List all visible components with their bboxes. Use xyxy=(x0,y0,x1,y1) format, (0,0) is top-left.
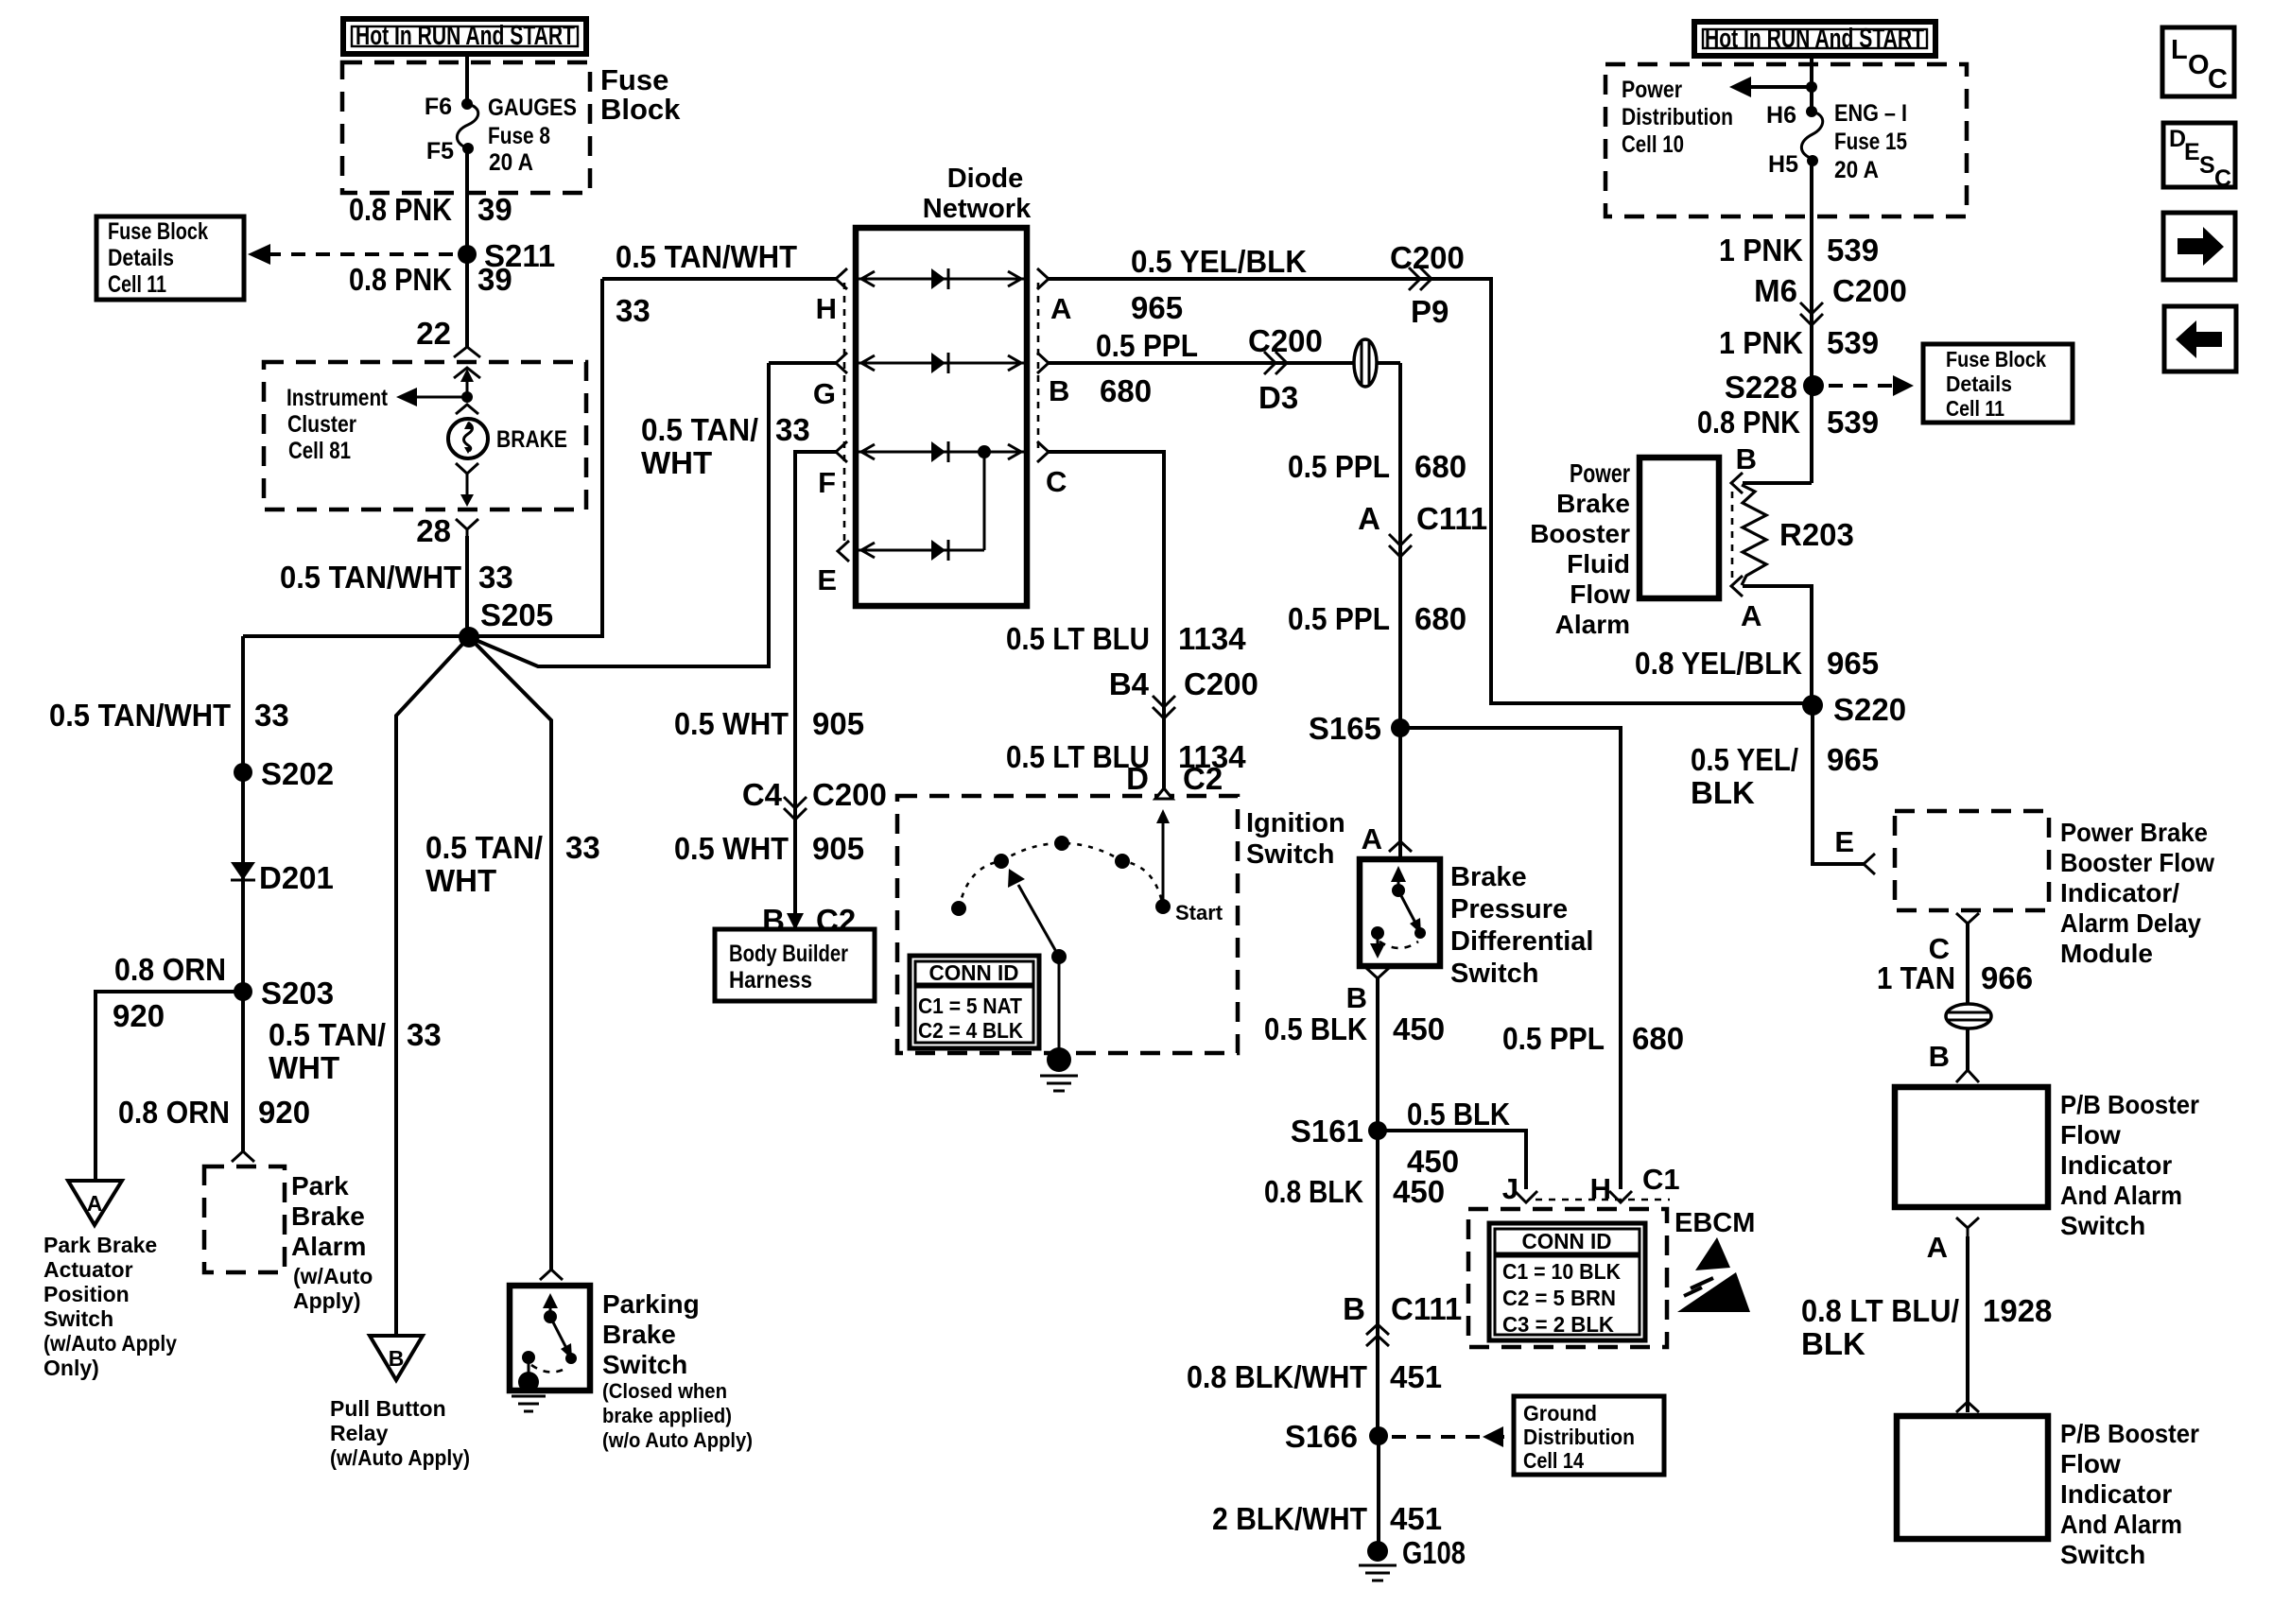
ignition switch dashed box xyxy=(897,796,1238,1053)
svg-text:Fuse 8: Fuse 8 xyxy=(488,123,550,149)
inline connector C200 P9 xyxy=(1390,240,1465,329)
svg-text:0.5 WHT: 0.5 WHT xyxy=(674,831,789,866)
svg-text:20 A: 20 A xyxy=(1834,157,1879,183)
pin chevron parking brake switch xyxy=(540,1270,563,1280)
pin C module xyxy=(1929,913,1979,965)
pin chevron G xyxy=(836,353,847,373)
wire S205 to diode H riser xyxy=(469,279,602,636)
svg-text:Fuse: Fuse xyxy=(600,63,668,96)
svg-text:B: B xyxy=(1736,442,1757,475)
svg-text:H6: H6 xyxy=(1766,102,1796,129)
svg-text:Cell 11: Cell 11 xyxy=(1946,396,2004,421)
svg-text:(w/Auto Apply: (w/Auto Apply xyxy=(43,1331,177,1356)
svg-text:GAUGES: GAUGES xyxy=(488,95,577,121)
svg-text:0.8 BLK: 0.8 BLK xyxy=(1264,1174,1363,1209)
svg-text:Indicator/: Indicator/ xyxy=(2060,878,2179,907)
off-page triangle A xyxy=(68,1181,122,1225)
svg-text:Instrument: Instrument xyxy=(286,385,389,411)
grommet on TAN wire xyxy=(1946,1004,1991,1028)
svg-text:920: 920 xyxy=(258,1095,310,1130)
svg-text:Fuse 15: Fuse 15 xyxy=(1834,129,1907,155)
label Power Brake Booster Flow Indicator/Alarm Delay Module xyxy=(2060,818,2214,968)
svg-text:966: 966 xyxy=(1981,960,2033,995)
wire H5 down to S228 and B pin xyxy=(1810,161,1813,483)
splice S203 xyxy=(234,982,252,1001)
svg-text:Flow: Flow xyxy=(2060,1449,2121,1478)
svg-text:L: L xyxy=(2171,35,2188,65)
svg-text:(Closed when: (Closed when xyxy=(602,1379,727,1403)
grommet on PPL wire xyxy=(1354,339,1377,387)
junction dot row F xyxy=(978,445,991,458)
label P/B Booster Flow Indicator And Alarm Switch (1) xyxy=(2060,1090,2199,1240)
wire S205 to parking brake switch xyxy=(469,637,551,1270)
svg-text:0.5 BLK: 0.5 BLK xyxy=(1407,1097,1510,1132)
wire F row horizontal xyxy=(795,452,836,929)
svg-text:C2 = 4 BLK: C2 = 4 BLK xyxy=(918,1018,1023,1043)
Y connector below cluster box xyxy=(456,519,478,536)
instrument cluster dashed box xyxy=(264,362,586,510)
p/b booster flow indicator and alarm switch box 1 xyxy=(1895,1087,2048,1207)
svg-text:P9: P9 xyxy=(1411,294,1449,329)
svg-text:C: C xyxy=(1046,465,1067,498)
parking brake switch box xyxy=(510,1286,590,1391)
label Pull Button Relay xyxy=(330,1396,470,1470)
svg-text:Park: Park xyxy=(291,1171,349,1201)
splice S228 xyxy=(1803,375,1824,396)
svg-text:D: D xyxy=(1126,761,1149,796)
inline connector C200 D3 xyxy=(1248,323,1323,415)
svg-text:D201: D201 xyxy=(259,860,334,895)
svg-text:450: 450 xyxy=(1393,1174,1445,1209)
svg-text:0.5 TAN/WHT: 0.5 TAN/WHT xyxy=(616,239,797,274)
svg-text:Switch: Switch xyxy=(43,1306,113,1331)
svg-text:Flow: Flow xyxy=(1570,579,1630,609)
connector chevron pin 22 xyxy=(454,347,480,357)
svg-text:2 BLK/WHT: 2 BLK/WHT xyxy=(1212,1501,1367,1536)
svg-text:G108: G108 xyxy=(1402,1535,1466,1570)
svg-text:905: 905 xyxy=(812,831,864,866)
svg-text:Cell 14: Cell 14 xyxy=(1523,1448,1584,1473)
splice S220 xyxy=(1802,695,1823,716)
svg-text:33: 33 xyxy=(775,412,810,447)
wire box1 to box2 xyxy=(1966,1236,1969,1412)
svg-text:EBCM: EBCM xyxy=(1674,1208,1755,1238)
svg-text:33: 33 xyxy=(407,1017,442,1052)
brake pressure differential switch box xyxy=(1360,859,1440,966)
pin chevron C xyxy=(1037,441,1049,462)
svg-text:C2: C2 xyxy=(816,903,856,938)
svg-text:539: 539 xyxy=(1827,405,1879,440)
svg-text:Pressure: Pressure xyxy=(1450,894,1568,924)
ignition start contact wire with up arrow xyxy=(1156,809,1170,907)
EBCM connector dashed line xyxy=(1536,1199,1670,1201)
body builder harness box xyxy=(715,929,875,1001)
svg-text:Flow: Flow xyxy=(2060,1120,2121,1149)
svg-text:965: 965 xyxy=(1131,290,1183,325)
svg-text:0.5 PPL: 0.5 PPL xyxy=(1288,601,1390,636)
resistor R203 xyxy=(1742,485,1854,585)
label Power Distribution Cell 10 xyxy=(1622,77,1733,158)
wire S203 to park brake actuator xyxy=(95,992,243,1181)
wire S161 to EBCM J xyxy=(1378,1131,1526,1189)
diode D201 xyxy=(231,860,334,895)
svg-text:E: E xyxy=(2184,139,2200,165)
svg-text:0.5 TAN/: 0.5 TAN/ xyxy=(269,1017,386,1052)
internal wire with up arrow xyxy=(460,369,474,403)
svg-text:539: 539 xyxy=(1827,233,1879,268)
svg-text:0.5 PPL: 0.5 PPL xyxy=(1288,449,1390,484)
CONN ID table (EBCM) xyxy=(1489,1223,1645,1340)
svg-text:Fuse Block: Fuse Block xyxy=(108,218,208,245)
svg-text:Diode: Diode xyxy=(947,164,1024,194)
connector C4 C200 xyxy=(742,777,887,820)
diode network box xyxy=(856,228,1027,606)
svg-text:F6: F6 xyxy=(425,94,452,120)
connector B4 C200 xyxy=(1109,666,1258,718)
label Park Brake Actuator Position Switch xyxy=(43,1233,177,1380)
switch contacts inside xyxy=(522,1293,577,1373)
connector D C2 xyxy=(1126,761,1223,799)
svg-text:R203: R203 xyxy=(1779,517,1854,552)
label P/B Booster Flow Indicator And Alarm Switch (2) xyxy=(2060,1419,2199,1569)
splice S161 xyxy=(1368,1121,1387,1140)
pin chevron box2 xyxy=(1956,1402,1979,1412)
connector dashed line right xyxy=(1037,283,1040,449)
icon LOC xyxy=(2162,27,2234,96)
svg-text:brake applied): brake applied) xyxy=(602,1404,732,1427)
wire S166 to G108 xyxy=(1377,1436,1380,1543)
svg-text:Distribution: Distribution xyxy=(1622,104,1733,130)
svg-text:680: 680 xyxy=(1100,373,1152,408)
ESD warning symbol xyxy=(1677,1237,1750,1312)
svg-text:WHT: WHT xyxy=(269,1050,339,1085)
wire grommet to B pin xyxy=(1966,1028,1969,1070)
wire S220 to E pin module xyxy=(1813,705,1864,864)
svg-text:(w/Auto Apply): (w/Auto Apply) xyxy=(330,1445,470,1470)
svg-text:Fluid: Fluid xyxy=(1567,549,1630,579)
wire A row YEL/BLK xyxy=(1049,279,1813,703)
svg-text:CONN ID: CONN ID xyxy=(929,960,1019,985)
ground G (ignition) xyxy=(1040,1047,1078,1091)
svg-text:0.5 LT BLU: 0.5 LT BLU xyxy=(1006,621,1150,656)
svg-text:1 TAN: 1 TAN xyxy=(1877,960,1955,995)
splice S202 xyxy=(234,763,252,782)
splice S211 xyxy=(458,245,477,264)
wire S165 to EBCM H xyxy=(1400,728,1621,1189)
wire C to grommet xyxy=(1966,924,1969,1005)
connector B C111 xyxy=(1343,1291,1462,1346)
svg-text:C111: C111 xyxy=(1391,1291,1462,1326)
svg-text:O: O xyxy=(2188,50,2210,80)
svg-text:0.5 TAN/: 0.5 TAN/ xyxy=(641,412,758,447)
dashed arrow to fuse block details xyxy=(248,244,460,265)
wire contact to ground xyxy=(1058,957,1061,1054)
pin chevron F xyxy=(836,441,847,462)
svg-text:0.8 PNK: 0.8 PNK xyxy=(349,192,452,227)
svg-text:Details: Details xyxy=(1946,371,2012,396)
fuse block details box (left) xyxy=(96,216,244,300)
svg-text:And Alarm: And Alarm xyxy=(2060,1181,2182,1210)
svg-text:Alarm: Alarm xyxy=(1555,610,1630,639)
label Park Brake Alarm xyxy=(291,1171,373,1313)
svg-text:B: B xyxy=(1346,981,1367,1014)
svg-text:Switch: Switch xyxy=(1450,959,1538,989)
label Instrument Cluster Cell 81 xyxy=(286,385,389,464)
svg-text:33: 33 xyxy=(565,830,600,865)
svg-text:Switch: Switch xyxy=(2060,1540,2145,1569)
splice S165 xyxy=(1391,718,1410,737)
icon DESC xyxy=(2163,123,2235,192)
svg-text:965: 965 xyxy=(1827,742,1879,777)
svg-text:Hot In RUN And START: Hot In RUN And START xyxy=(356,21,575,51)
svg-text:B: B xyxy=(762,903,785,938)
svg-text:Power Brake: Power Brake xyxy=(2060,818,2208,847)
svg-text:S165: S165 xyxy=(1309,711,1381,746)
start contact dot xyxy=(1155,899,1171,914)
svg-text:1928: 1928 xyxy=(1983,1293,2052,1328)
label Parking Brake Switch xyxy=(602,1289,753,1452)
svg-text:33: 33 xyxy=(616,293,651,328)
icon back arrow xyxy=(2164,306,2236,371)
svg-text:C200: C200 xyxy=(1832,273,1907,308)
diode row F xyxy=(856,441,1027,462)
svg-text:Cluster: Cluster xyxy=(287,411,356,438)
label 0.8 LT BLU/ BLK 1928 xyxy=(1801,1293,2052,1361)
svg-text:33: 33 xyxy=(254,698,289,733)
fuse F6/F5 GAUGES Fuse 8 20A xyxy=(425,94,577,176)
CONN ID table (ignition) xyxy=(910,956,1039,1048)
svg-text:0.5 WHT: 0.5 WHT xyxy=(674,706,789,741)
svg-text:Ground: Ground xyxy=(1523,1401,1597,1425)
svg-text:C200: C200 xyxy=(1184,666,1258,701)
svg-text:C: C xyxy=(2214,165,2231,192)
svg-text:39: 39 xyxy=(477,262,512,297)
svg-text:Network: Network xyxy=(923,194,1032,224)
svg-text:450: 450 xyxy=(1393,1011,1445,1046)
svg-text:C200: C200 xyxy=(1248,323,1323,358)
dashed arrow to ground distribution xyxy=(1392,1426,1505,1447)
svg-text:Block: Block xyxy=(600,93,681,126)
svg-text:Fuse Block: Fuse Block xyxy=(1946,347,2046,371)
svg-text:B: B xyxy=(1929,1040,1950,1073)
D entry triangle into ignition switch xyxy=(1155,788,1172,799)
svg-text:Start: Start xyxy=(1175,901,1223,924)
svg-text:C: C xyxy=(2208,64,2228,95)
svg-text:Switch: Switch xyxy=(2060,1211,2145,1240)
off-page triangle B xyxy=(370,1336,423,1380)
svg-text:S220: S220 xyxy=(1833,692,1906,727)
svg-text:0.5 YEL/: 0.5 YEL/ xyxy=(1691,742,1798,777)
svg-text:C3 = 2 BLK: C3 = 2 BLK xyxy=(1502,1312,1614,1337)
diode row H xyxy=(856,268,1027,289)
svg-text:Position: Position xyxy=(43,1282,130,1306)
wire C row LT BLU xyxy=(1049,452,1164,790)
svg-text:Only): Only) xyxy=(43,1356,99,1380)
connector M6 C200 xyxy=(1754,273,1907,325)
svg-text:0.5 TAN/: 0.5 TAN/ xyxy=(425,830,543,865)
svg-text:D3: D3 xyxy=(1258,380,1298,415)
svg-text:0.5 TAN/WHT: 0.5 TAN/WHT xyxy=(280,560,461,595)
connector A C111 xyxy=(1358,501,1487,557)
wire to B pin xyxy=(1743,481,1812,485)
svg-text:0.8 ORN: 0.8 ORN xyxy=(118,1095,230,1130)
svg-text:S205: S205 xyxy=(480,597,553,632)
svg-text:BLK: BLK xyxy=(1801,1326,1865,1361)
connector B C2 (body builder) xyxy=(762,903,856,938)
svg-text:Harness: Harness xyxy=(729,967,812,993)
svg-text:C1 = 5 NAT: C1 = 5 NAT xyxy=(918,993,1022,1018)
pin Y below box1 xyxy=(1956,1218,1979,1236)
wire S205 to diode G riser xyxy=(469,363,769,666)
svg-text:H: H xyxy=(816,292,837,325)
svg-text:Switch: Switch xyxy=(602,1350,687,1379)
wire S205 left branch xyxy=(243,634,469,638)
svg-text:1134: 1134 xyxy=(1178,621,1246,656)
pin B booster switch xyxy=(1929,1040,1979,1082)
svg-text:G: G xyxy=(813,377,836,410)
wire S205 to pull button relay xyxy=(396,637,469,1336)
label Power Brake Booster Fluid Flow Alarm xyxy=(1530,458,1630,639)
label Brake Pressure Differential Switch xyxy=(1450,862,1593,989)
svg-text:Alarm: Alarm xyxy=(291,1232,366,1261)
svg-text:0.5 BLK: 0.5 BLK xyxy=(1264,1011,1367,1046)
svg-text:Switch: Switch xyxy=(1246,839,1334,870)
header box "Hot In RUN And START" (right) xyxy=(1694,22,1935,56)
svg-text:F: F xyxy=(818,466,836,499)
splice S205 xyxy=(459,627,479,648)
svg-text:0.8 PNK: 0.8 PNK xyxy=(1697,405,1800,440)
ground distribution box xyxy=(1514,1396,1664,1475)
ignition rotary dashed arc xyxy=(959,843,1163,908)
svg-text:33: 33 xyxy=(478,560,513,595)
svg-text:P/B Booster: P/B Booster xyxy=(2060,1090,2199,1119)
svg-text:C2 = 5 BRN: C2 = 5 BRN xyxy=(1502,1286,1616,1310)
arc position dots xyxy=(951,836,1130,916)
svg-text:1 PNK: 1 PNK xyxy=(1719,233,1803,268)
riser F to E xyxy=(983,452,986,550)
svg-text:Apply): Apply) xyxy=(293,1288,361,1313)
svg-text:E: E xyxy=(817,563,837,596)
svg-text:0.5 PPL: 0.5 PPL xyxy=(1502,1021,1605,1056)
wire B row PPL xyxy=(1049,361,1400,365)
svg-text:22: 22 xyxy=(416,316,451,351)
ignition moving contact arm xyxy=(1008,869,1067,964)
pin A power brake booster alarm xyxy=(1731,576,1743,596)
fuse block dashed box xyxy=(342,62,590,193)
resistor R203 dashed connection xyxy=(1731,492,1734,584)
svg-text:A: A xyxy=(87,1191,103,1216)
svg-text:B4: B4 xyxy=(1109,666,1150,701)
svg-text:S228: S228 xyxy=(1725,370,1797,405)
svg-text:P/B Booster: P/B Booster xyxy=(2060,1419,2199,1448)
BRAKE indicator bulb xyxy=(448,419,567,458)
svg-text:Details: Details xyxy=(108,245,174,271)
svg-text:B: B xyxy=(1049,374,1069,407)
icon next arrow xyxy=(2163,213,2235,280)
svg-text:Cell 81: Cell 81 xyxy=(288,438,351,464)
svg-text:0.8 LT BLU/: 0.8 LT BLU/ xyxy=(1801,1293,1959,1328)
arrow to power distribution xyxy=(1729,77,1817,97)
svg-text:(w/o Auto Apply): (w/o Auto Apply) xyxy=(602,1428,753,1452)
svg-text:Alarm Delay: Alarm Delay xyxy=(2060,908,2201,938)
svg-text:Pull Button: Pull Button xyxy=(330,1396,446,1421)
svg-text:WHT: WHT xyxy=(425,863,496,898)
power distribution dashed box xyxy=(1605,64,1967,216)
svg-text:A: A xyxy=(1358,501,1380,536)
svg-text:0.8 YEL/BLK: 0.8 YEL/BLK xyxy=(1635,646,1802,681)
pin chevron park brake alarm xyxy=(232,1151,254,1162)
wire G row horizontal xyxy=(769,361,836,365)
svg-text:Brake: Brake xyxy=(291,1201,365,1231)
svg-text:CONN ID: CONN ID xyxy=(1522,1229,1612,1253)
svg-text:B: B xyxy=(1343,1291,1365,1326)
svg-text:680: 680 xyxy=(1414,601,1466,636)
ground G108 xyxy=(1359,1535,1466,1581)
svg-text:0.5 PPL: 0.5 PPL xyxy=(1096,328,1198,363)
svg-text:A: A xyxy=(1927,1231,1948,1264)
svg-text:0.8 ORN: 0.8 ORN xyxy=(114,952,226,987)
dashed arrow to fuse block details (right) xyxy=(1829,375,1914,396)
svg-text:680: 680 xyxy=(1414,449,1466,484)
svg-text:E: E xyxy=(1834,825,1854,858)
pin chevron inside cluster xyxy=(454,368,480,378)
svg-text:C200: C200 xyxy=(1390,240,1465,275)
svg-text:Indicator: Indicator xyxy=(2060,1150,2172,1180)
svg-text:C2: C2 xyxy=(1183,761,1223,796)
svg-text:Differential: Differential xyxy=(1450,926,1593,957)
wire A pin to S220 xyxy=(1743,586,1812,703)
svg-text:Ignition: Ignition xyxy=(1246,808,1345,838)
svg-text:905: 905 xyxy=(812,706,864,741)
svg-text:539: 539 xyxy=(1827,325,1879,360)
header box "Hot In RUN And START" (left) xyxy=(343,19,586,54)
svg-text:451: 451 xyxy=(1390,1501,1442,1536)
svg-text:Booster Flow: Booster Flow xyxy=(2060,848,2214,877)
svg-text:J: J xyxy=(1502,1172,1518,1205)
wire PPL vertical to S165 xyxy=(1398,363,1402,859)
svg-text:965: 965 xyxy=(1827,646,1879,681)
EBCM dashed box xyxy=(1468,1209,1667,1347)
pin chevron H xyxy=(836,268,847,289)
pin chevron B xyxy=(1037,353,1049,373)
svg-text:C200: C200 xyxy=(812,777,887,812)
svg-text:Brake: Brake xyxy=(1556,489,1630,518)
svg-text:920: 920 xyxy=(113,998,165,1033)
svg-text:S202: S202 xyxy=(261,756,334,791)
wire B to S161 xyxy=(1376,978,1379,1436)
chevron under dot xyxy=(456,405,478,414)
fuse H6/H5 ENG-I Fuse 15 20A xyxy=(1766,100,1907,183)
svg-text:Booster: Booster xyxy=(1530,519,1630,548)
svg-text:20 A: 20 A xyxy=(489,149,533,176)
wire left vertical S202/D201/S203 xyxy=(241,636,245,1151)
label 0.5 TAN/ WHT 33 (parking brake wire) xyxy=(425,830,600,898)
down arrow to box edge xyxy=(460,479,474,507)
svg-text:ENG – I: ENG – I xyxy=(1834,100,1907,127)
svg-text:0.8 BLK/WHT: 0.8 BLK/WHT xyxy=(1187,1359,1367,1394)
svg-text:S: S xyxy=(2199,152,2215,179)
svg-text:S166: S166 xyxy=(1285,1419,1358,1454)
label 0.5 TAN/ WHT 33 (pull button wire) xyxy=(269,1017,442,1085)
svg-text:Relay: Relay xyxy=(330,1421,389,1445)
switch contacts inside xyxy=(1370,866,1426,959)
svg-text:1 PNK: 1 PNK xyxy=(1719,325,1803,360)
svg-text:680: 680 xyxy=(1632,1021,1684,1056)
wire H row horizontal xyxy=(602,277,836,281)
svg-text:BRAKE: BRAKE xyxy=(496,426,567,453)
svg-text:Parking: Parking xyxy=(602,1289,700,1319)
p/b booster flow indicator and alarm switch box 2 xyxy=(1897,1416,2048,1539)
